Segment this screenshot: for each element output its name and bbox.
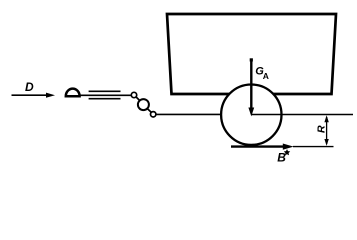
link segment 2 (147, 108, 151, 112)
drawbar bottom line (89, 98, 121, 100)
body trapezoid A (167, 14, 336, 94)
svg-text:A: A (263, 71, 269, 81)
wheel circle (221, 85, 281, 145)
label G_A (255, 66, 269, 82)
radius reference line at wheel center (251, 114, 353, 116)
label B* (277, 149, 290, 164)
joint circle 2 (138, 99, 149, 110)
drawbar top line (89, 90, 121, 92)
radius dimension line R (324, 115, 328, 146)
reaction force arrow B* (231, 144, 294, 150)
svg-text:R: R (316, 125, 328, 133)
connecting rod to wheel (156, 113, 225, 115)
drawbar middle line (80, 94, 132, 96)
joint pin circle 3 (151, 112, 156, 117)
link segment 1 (136, 97, 140, 101)
tow hook dome (66, 89, 80, 97)
bottom reference line (293, 146, 334, 148)
force arrow D (12, 93, 56, 98)
svg-text:D: D (25, 80, 34, 94)
joint pin circle 1 (131, 92, 136, 97)
weight force arrow G_A (248, 58, 254, 116)
